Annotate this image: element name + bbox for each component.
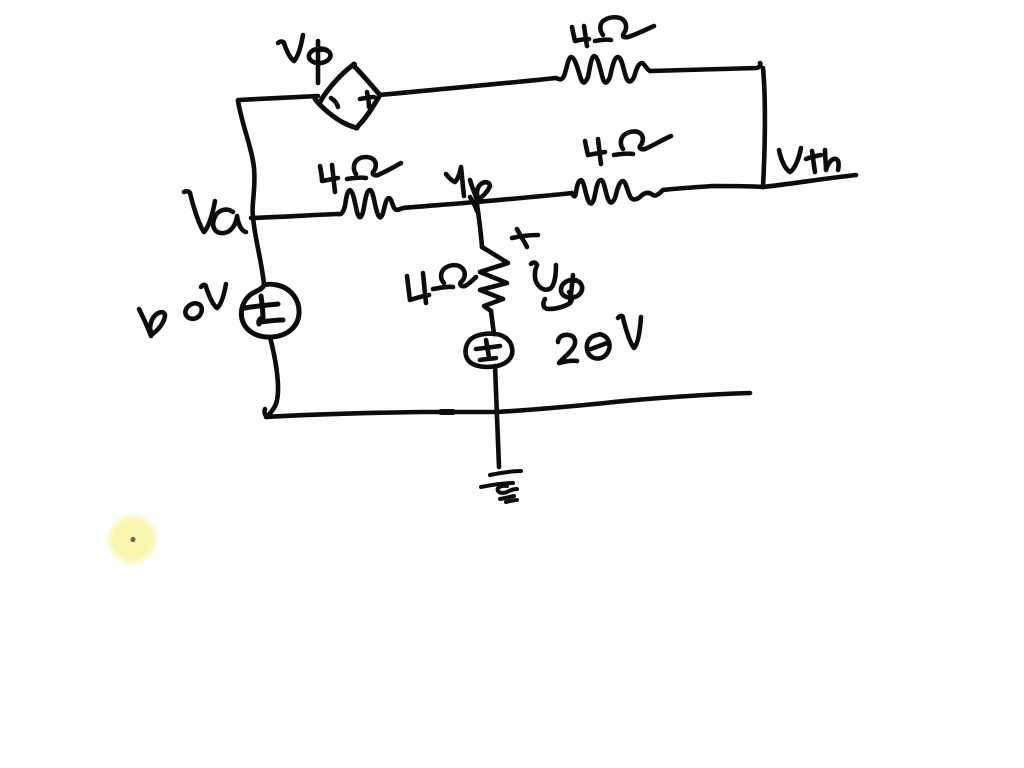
label 4Ω (vertical resistor) — [407, 265, 476, 303]
wire (node rb to mid-right resistor) — [477, 193, 572, 202]
wire top-left horizontal — [238, 96, 318, 100]
wire bottom horizontal — [266, 393, 750, 417]
plus mark inside diamond — [360, 92, 374, 107]
label 4Ω (middle-left) — [320, 157, 401, 192]
resistor R top 4Ω — [556, 56, 650, 83]
wire (mid-right resistor to right vertical) — [663, 186, 763, 190]
resistor R mid-right 4Ω — [572, 180, 663, 204]
voltage source 20V — [466, 334, 513, 367]
ground — [481, 471, 521, 502]
wire (top resistor to top-right corner) — [650, 63, 760, 71]
wire (vertical resistor to 20V source) — [491, 311, 494, 334]
label 100V — [139, 284, 226, 336]
wire top (diamond to top resistor) — [379, 78, 556, 95]
plus mark (top of vertical resistor) — [512, 229, 538, 247]
label 4Ω (middle-right) — [585, 131, 671, 164]
resistor R mid-left 4Ω — [338, 190, 403, 217]
node Va junction to 100V source wire — [253, 217, 264, 285]
wire left vertical (top corner down to Va) — [238, 101, 254, 217]
label Va — [184, 191, 246, 233]
label 20V — [558, 316, 641, 363]
wire (mid resistor to node rb) — [403, 202, 475, 208]
node rb (junction tick) — [470, 197, 477, 211]
junction blob on bottom wire — [441, 409, 453, 415]
label 4Ω (top) — [572, 17, 654, 46]
wire (20V source down through bottom wire to ground) — [495, 366, 499, 467]
label Vth — [779, 148, 839, 172]
wire Vth terminal horizontal — [763, 175, 856, 187]
label Vφ (middle) — [531, 263, 582, 309]
voltage source 100V — [241, 284, 299, 337]
label rb — [446, 167, 490, 200]
yellow highlight dot — [106, 513, 160, 567]
wire rb vertical down to resistor — [477, 204, 482, 247]
minus mark inside diamond — [331, 98, 338, 107]
wire middle (Va to mid resistor) — [251, 214, 338, 218]
label Vφ (top-left) — [278, 35, 331, 83]
wire right vertical (Vth branch) — [763, 68, 765, 187]
dependent source Vφ (diamond) — [315, 62, 380, 129]
wire (100V source bottom to bottom-left corner) — [265, 337, 278, 417]
resistor R vertical 4Ω (zigzag) — [480, 247, 508, 311]
